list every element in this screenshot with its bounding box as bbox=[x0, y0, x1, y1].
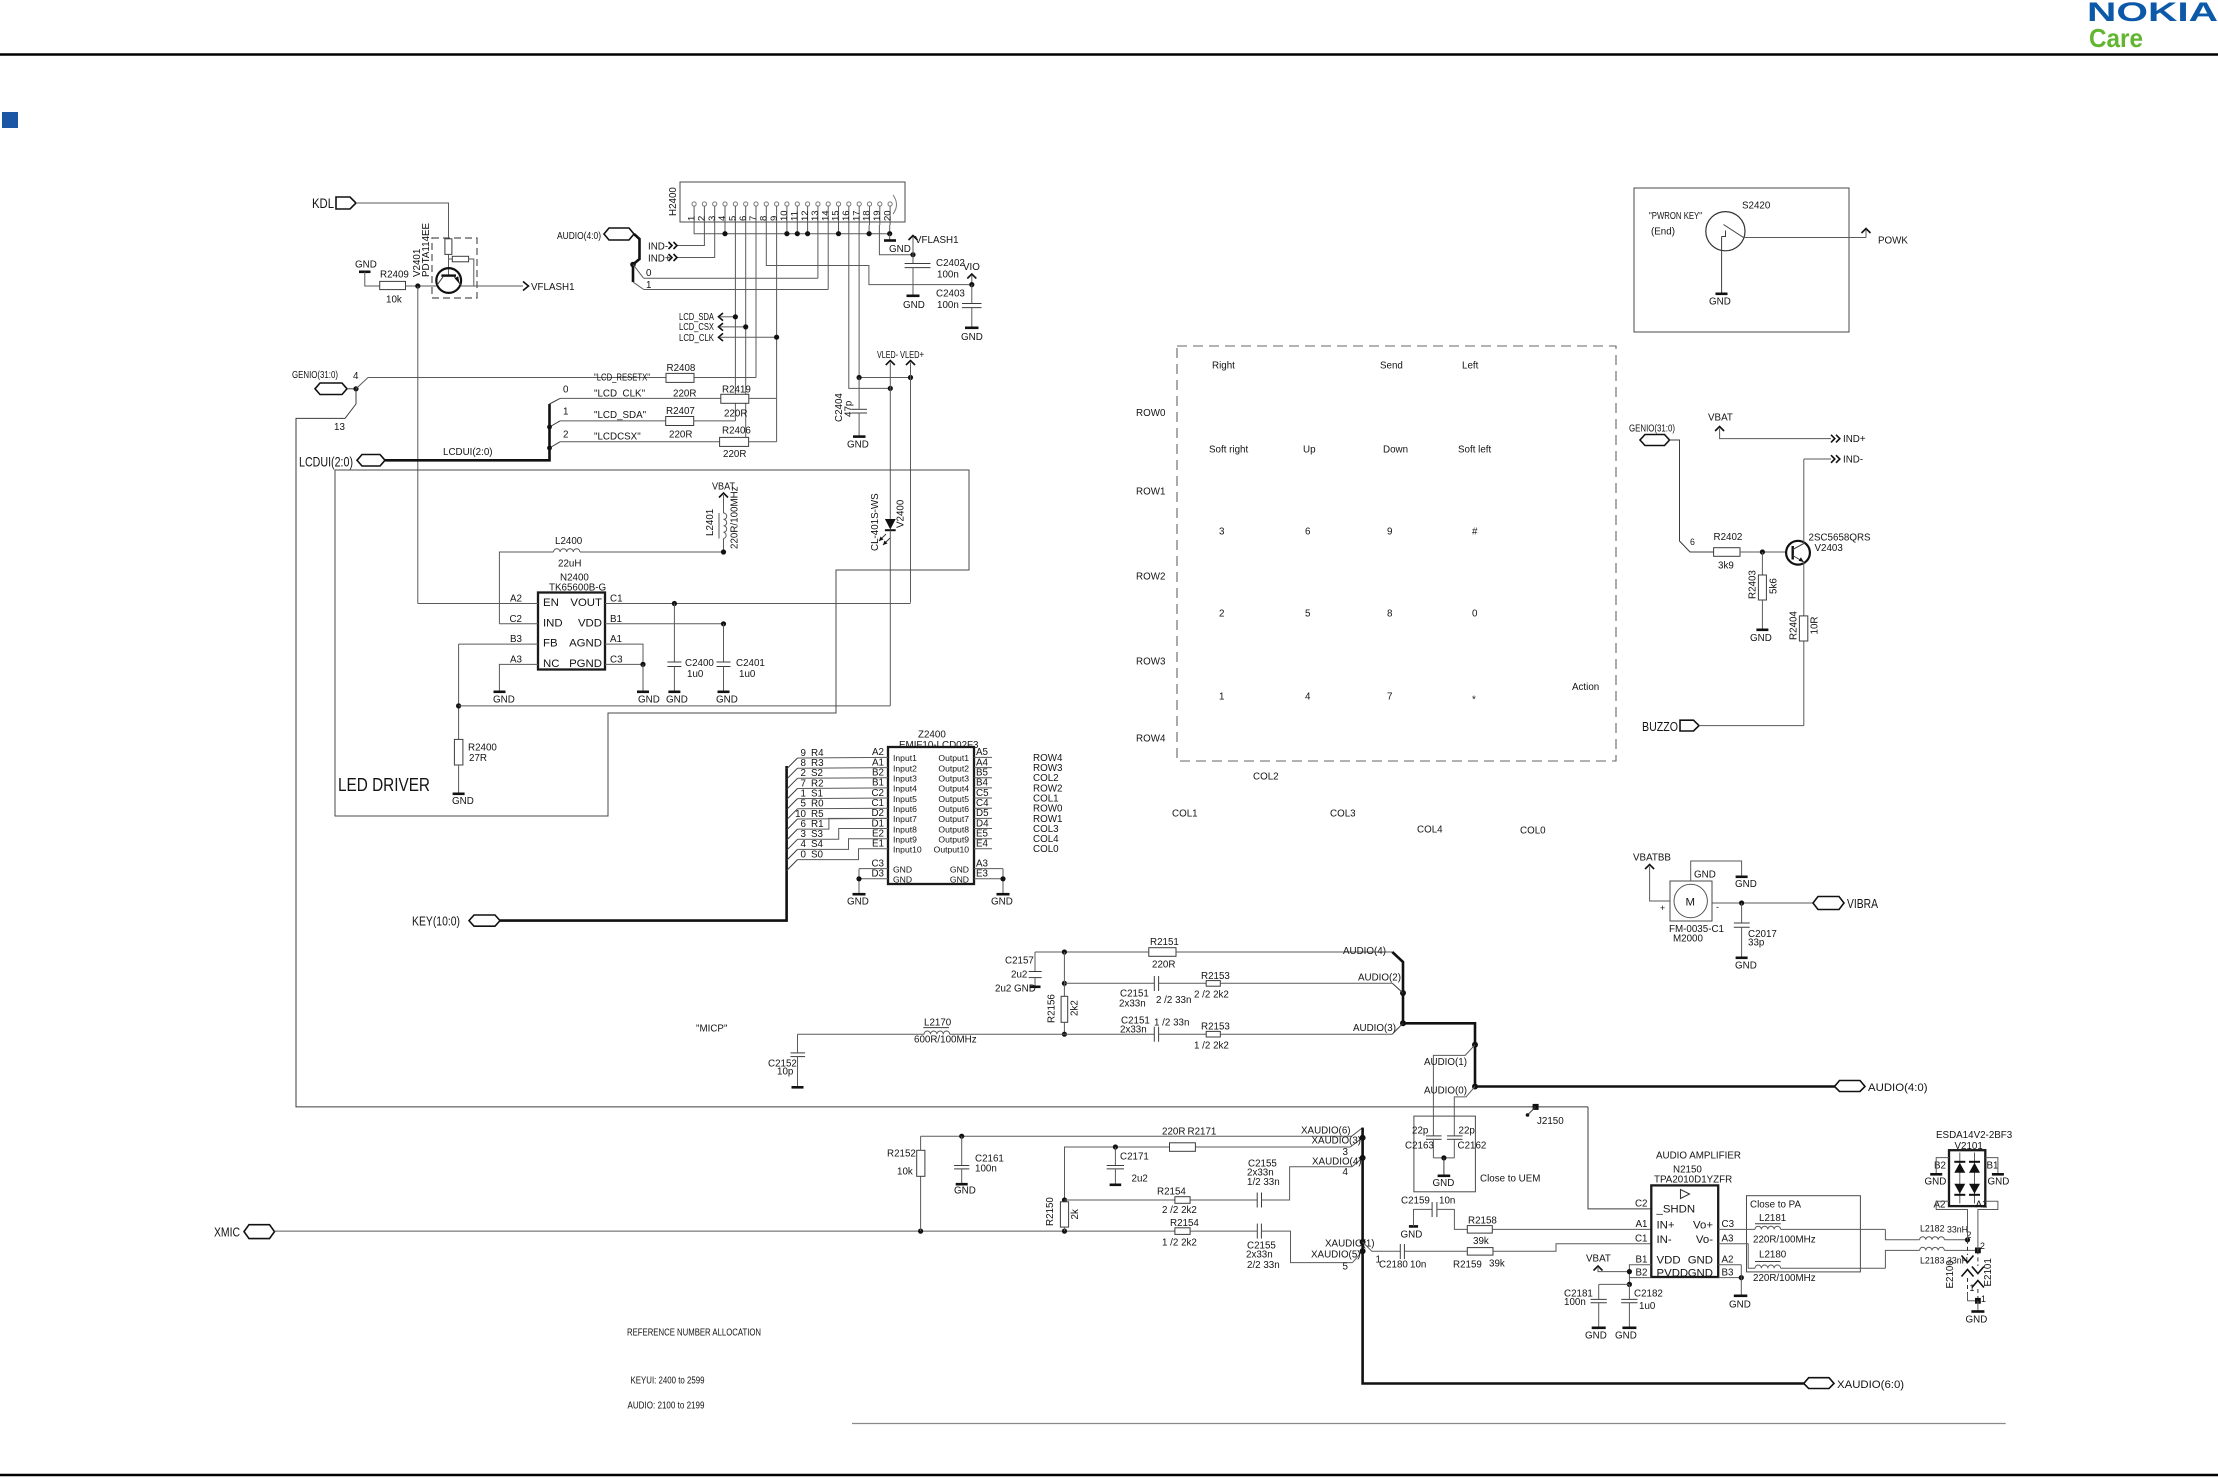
jumper J2150 bbox=[1526, 1104, 1565, 1127]
ground E2100/E2101 bbox=[1966, 1301, 1988, 1326]
thick AUDIO bus right bbox=[1392, 952, 1834, 1090]
wire S3 jog to Input8 bbox=[798, 829, 889, 840]
svg-text:R2403: R2403 bbox=[1748, 570, 1759, 599]
svg-text:2SC5658QRS: 2SC5658QRS bbox=[1809, 533, 1872, 544]
GND for R2409 bbox=[355, 260, 380, 287]
wire S4 jog to Input9 bbox=[798, 839, 889, 850]
svg-text:GND: GND bbox=[493, 695, 515, 706]
svg-text:R2406: R2406 bbox=[722, 426, 751, 437]
svg-text:13: 13 bbox=[334, 422, 345, 433]
wire GENIO bit4 to LCD_RESETX row bbox=[356, 378, 666, 389]
svg-text:AUDIO(2): AUDIO(2) bbox=[1358, 973, 1401, 984]
svg-text:2u2: 2u2 bbox=[995, 984, 1011, 995]
svg-text:"MICP": "MICP" bbox=[696, 1024, 728, 1035]
capacitor C2151 1/2 33n bbox=[1120, 1016, 1206, 1042]
svg-text:LCD_CSX: LCD_CSX bbox=[679, 322, 714, 333]
svg-text:4: 4 bbox=[353, 371, 359, 382]
svg-text:Output9: Output9 bbox=[938, 835, 969, 845]
port GENIO(31:0) left bbox=[292, 370, 359, 395]
svg-text:33p: 33p bbox=[1748, 938, 1765, 949]
svg-text:0: 0 bbox=[1472, 609, 1478, 620]
PWRON key boundary box bbox=[1634, 188, 1849, 332]
Z2400 left pin names bbox=[871, 747, 884, 849]
svg-text:220R: 220R bbox=[1162, 1127, 1185, 1138]
net label LCD_CLK row bbox=[560, 385, 721, 400]
Z2400 left GND pins bbox=[847, 858, 888, 907]
svg-text:2: 2 bbox=[1219, 609, 1224, 620]
svg-text:GND: GND bbox=[1585, 1331, 1607, 1342]
wire pin14 (AUDIO 1) bbox=[827, 225, 829, 290]
port VIBRA bbox=[1813, 897, 1879, 912]
ground C2403 bbox=[961, 328, 983, 343]
svg-text:POWK: POWK bbox=[1878, 236, 1908, 247]
svg-text:ROW0: ROW0 bbox=[1136, 408, 1166, 419]
svg-text:R2400: R2400 bbox=[468, 743, 497, 754]
svg-text:IND-: IND- bbox=[1843, 455, 1863, 466]
svg-text:VIBRA: VIBRA bbox=[1847, 897, 1879, 911]
port AUDIO(4:0) right bbox=[1835, 1081, 1928, 1095]
svg-text:C2157: C2157 bbox=[1005, 956, 1034, 967]
svg-text:C2401: C2401 bbox=[736, 658, 765, 669]
capacitor C2171 2u2 bbox=[1107, 1147, 1149, 1185]
svg-text:Output2: Output2 bbox=[938, 763, 969, 773]
svg-text:XAUDIO(3): XAUDIO(3) bbox=[1312, 1136, 1362, 1147]
svg-text:V2400: V2400 bbox=[896, 499, 907, 528]
svg-text:Input1: Input1 bbox=[893, 753, 917, 763]
svg-text:S0: S0 bbox=[811, 849, 824, 860]
resistor R2150 2k bbox=[1045, 1197, 1081, 1232]
svg-text:6: 6 bbox=[1690, 537, 1695, 547]
svg-text:100n: 100n bbox=[975, 1164, 997, 1175]
svg-text:L2401: L2401 bbox=[705, 509, 716, 536]
capacitor C2155 1/2 33n bbox=[1247, 1159, 1352, 1208]
svg-text:J2150: J2150 bbox=[1537, 1116, 1564, 1127]
svg-text:B1: B1 bbox=[610, 614, 622, 625]
svg-text:GND: GND bbox=[847, 440, 869, 451]
VBAT to IND+ bbox=[1708, 413, 1866, 446]
svg-text:AUDIO(1): AUDIO(1) bbox=[1424, 1057, 1467, 1068]
ground symbol connector bus bbox=[884, 234, 911, 255]
svg-text:R2151: R2151 bbox=[1150, 937, 1179, 948]
svg-text:REFERENCE NUMBER ALLOCATION: REFERENCE NUMBER ALLOCATION bbox=[627, 1328, 761, 1339]
wire XMIC row bbox=[275, 1230, 1175, 1232]
capacitor C2152 10p bbox=[768, 1034, 805, 1087]
port XMIC bbox=[214, 1225, 275, 1240]
svg-text:VBAT: VBAT bbox=[1708, 413, 1733, 424]
svg-text:VFLASH1: VFLASH1 bbox=[531, 282, 575, 293]
wire EN riser from R2409 node down to N2400 EN bbox=[417, 286, 419, 604]
spark gap E2100 bbox=[1945, 1240, 1978, 1301]
wire R5 to Input7 bbox=[798, 817, 889, 820]
capacitor C2403 100n bbox=[936, 285, 982, 327]
blue square bullet bbox=[2, 112, 18, 128]
svg-text:47p: 47p bbox=[844, 400, 855, 417]
IC N2150 body bbox=[1635, 1185, 1735, 1279]
wire XAUDIO(4) tap bbox=[1312, 1157, 1363, 1179]
svg-text:Close to UEM: Close to UEM bbox=[1480, 1174, 1540, 1185]
pin VDD wire to VBAT node bbox=[605, 623, 724, 625]
wire AUDIO bit0 to pin13 bbox=[633, 265, 818, 280]
svg-text:C1: C1 bbox=[1635, 1234, 1648, 1245]
port BUZZO bbox=[1642, 719, 1804, 734]
Z2400 net names ROW/COL bbox=[1033, 753, 1063, 855]
svg-text:2k2: 2k2 bbox=[1070, 1000, 1081, 1016]
FB node riser and LED return wire bbox=[456, 644, 890, 739]
svg-text:Input6: Input6 bbox=[893, 804, 917, 814]
svg-text:10k: 10k bbox=[897, 1167, 913, 1178]
VFLASH1 arrow right bbox=[523, 282, 575, 294]
pin PGND wire to GND bbox=[605, 662, 660, 706]
resistor R2171 bbox=[1170, 1143, 1351, 1152]
svg-text:C2402: C2402 bbox=[936, 258, 965, 269]
Nokia logo bbox=[2087, 0, 2218, 53]
svg-text:0: 0 bbox=[801, 849, 807, 860]
connector H2400 pins 1-20 bbox=[686, 202, 893, 225]
svg-text:A2: A2 bbox=[1722, 1255, 1734, 1266]
svg-text:AUDIO(4:0): AUDIO(4:0) bbox=[1868, 1082, 1928, 1094]
svg-text:10k: 10k bbox=[386, 295, 402, 306]
wire XAUDIO(6) row bbox=[921, 1135, 1352, 1137]
wire XAUDIO(5) tap bbox=[1311, 1250, 1363, 1273]
wire XAUDIO(1) row bbox=[1325, 1239, 1400, 1266]
svg-text:LCDUI(2:0): LCDUI(2:0) bbox=[299, 454, 353, 470]
svg-text:GND: GND bbox=[1401, 1230, 1423, 1241]
svg-text:GND: GND bbox=[716, 695, 738, 706]
svg-text:Input9: Input9 bbox=[893, 835, 917, 845]
capacitor C2182 1u0 bbox=[1615, 1284, 1663, 1341]
svg-text:1 /2 2k2: 1 /2 2k2 bbox=[1194, 1041, 1229, 1052]
svg-text:AUDIO(0): AUDIO(0) bbox=[1424, 1086, 1467, 1097]
svg-text:220R/100MHz: 220R/100MHz bbox=[1753, 1235, 1816, 1246]
wire switch to POWK bbox=[1744, 237, 1867, 239]
wire R2154 upper row bbox=[1065, 1199, 1175, 1201]
svg-text:D3: D3 bbox=[871, 869, 884, 880]
svg-text:2 /2 2k2: 2 /2 2k2 bbox=[1194, 990, 1229, 1001]
svg-text:R2171: R2171 bbox=[1188, 1127, 1217, 1138]
svg-text:XAUDIO(5): XAUDIO(5) bbox=[1311, 1250, 1361, 1261]
svg-text:C2162: C2162 bbox=[1458, 1141, 1487, 1152]
svg-text:4: 4 bbox=[1343, 1167, 1349, 1178]
LED DRIVER enclosure outline bbox=[335, 470, 969, 816]
wire R2 to Input4 bbox=[798, 787, 889, 790]
svg-text:R2408: R2408 bbox=[667, 363, 696, 374]
VLED- rail down to LED bbox=[889, 388, 891, 519]
svg-text:Send: Send bbox=[1380, 361, 1403, 372]
top rule line bbox=[0, 53, 2218, 55]
thick AUDIO bus hook bbox=[633, 234, 640, 282]
svg-text:Input7: Input7 bbox=[893, 814, 917, 824]
svg-text:GND: GND bbox=[1729, 1300, 1751, 1311]
IND+ entry arrows bbox=[648, 254, 677, 265]
svg-text:Output5: Output5 bbox=[938, 794, 969, 804]
svg-text:39k: 39k bbox=[1473, 1236, 1489, 1247]
svg-text:1: 1 bbox=[646, 280, 651, 291]
capacitor C2162 22p bbox=[1447, 1126, 1486, 1158]
svg-text:KEY(10:0): KEY(10:0) bbox=[412, 914, 460, 929]
svg-text:COL2: COL2 bbox=[1253, 772, 1279, 783]
GND bus under connector bbox=[694, 225, 890, 234]
svg-text:Output7: Output7 bbox=[938, 814, 969, 824]
capacitor C2401 1u0 bbox=[716, 624, 765, 706]
IC N2400 TK65600B-G bbox=[509, 573, 623, 670]
wire L2400 to IND pin bbox=[499, 552, 553, 624]
resistor R2156 2k2 bbox=[1047, 952, 1081, 1034]
bottom rule line bbox=[0, 1474, 2218, 1477]
svg-text:Output4: Output4 bbox=[938, 784, 969, 794]
spark gap E2101 bbox=[1972, 1250, 1994, 1304]
svg-text:(End): (End) bbox=[1651, 227, 1675, 238]
inductor L2182 33nH bbox=[1920, 1224, 1972, 1243]
inductor L2400 22uH bbox=[554, 536, 583, 570]
svg-text:R2404: R2404 bbox=[1789, 611, 1800, 640]
resistor R2154 2/2 2k2 bbox=[1157, 1187, 1257, 1217]
wire pin8 to VIO node bbox=[766, 225, 972, 285]
svg-text:"LCDCSX": "LCDCSX" bbox=[594, 432, 641, 443]
svg-text:C3: C3 bbox=[1722, 1219, 1735, 1230]
svg-text:AUDIO(4:0): AUDIO(4:0) bbox=[557, 231, 601, 242]
LED V2400 CL-401S-WS bbox=[870, 493, 907, 706]
svg-text:5: 5 bbox=[1305, 609, 1311, 620]
port AUDIO(4:0) top bbox=[557, 228, 634, 242]
svg-text:GND: GND bbox=[1433, 1178, 1455, 1189]
svg-text:GND: GND bbox=[961, 332, 983, 343]
svg-text:2/2 33n: 2/2 33n bbox=[1247, 1260, 1280, 1271]
wire R1 jog to Input7 bbox=[798, 818, 889, 829]
capacitor C2017 33p bbox=[1734, 903, 1777, 972]
wire XAUDIO(3) row bbox=[1065, 1144, 1170, 1200]
svg-text:XAUDIO(1): XAUDIO(1) bbox=[1325, 1239, 1375, 1250]
svg-text:M: M bbox=[1686, 897, 1696, 909]
svg-text:4: 4 bbox=[717, 216, 728, 221]
audio section bottom border bbox=[852, 1423, 2006, 1425]
transistor V2401 symbol bbox=[436, 268, 461, 293]
svg-text:E3: E3 bbox=[976, 869, 989, 880]
svg-text:GND: GND bbox=[889, 244, 911, 255]
svg-text:10p: 10p bbox=[777, 1067, 794, 1078]
svg-text:Input2: Input2 bbox=[893, 763, 917, 773]
connector latch pin hook bbox=[893, 195, 897, 214]
wire base bbox=[448, 254, 450, 274]
LCD_SDA tap bbox=[679, 312, 738, 323]
svg-text:220R/100MHz: 220R/100MHz bbox=[1753, 1273, 1816, 1284]
svg-text:COL4: COL4 bbox=[1417, 825, 1443, 836]
svg-text:39k: 39k bbox=[1489, 1259, 1505, 1270]
svg-text:GENIO(31:0): GENIO(31:0) bbox=[292, 370, 338, 381]
svg-text:Soft left: Soft left bbox=[1458, 445, 1491, 456]
wire AUDIO bit1 to pin14 bbox=[633, 280, 828, 291]
svg-text:TPA2010D1YZFR: TPA2010D1YZFR bbox=[1654, 1175, 1732, 1186]
svg-text:PDTA114EE: PDTA114EE bbox=[421, 222, 432, 277]
svg-text:VOUT: VOUT bbox=[570, 597, 602, 609]
svg-text:B3: B3 bbox=[510, 634, 523, 645]
Vo- wire and inductor L2180 bbox=[1718, 1244, 1885, 1284]
pin NC wire to GND bbox=[493, 664, 538, 705]
svg-text:33nH: 33nH bbox=[1947, 1225, 1968, 1235]
svg-text:100n: 100n bbox=[1564, 1297, 1586, 1308]
svg-text:IND-: IND- bbox=[648, 242, 668, 253]
svg-text:ROW2: ROW2 bbox=[1136, 572, 1165, 583]
internal base resistor R1 of V2401 bbox=[445, 239, 452, 255]
internal resistor R2 of V2401 bbox=[449, 256, 474, 285]
svg-text:2x33n: 2x33n bbox=[1120, 1025, 1147, 1036]
dashed body box V2401 bbox=[432, 238, 477, 298]
svg-text:AUDIO(4): AUDIO(4) bbox=[1343, 946, 1386, 957]
svg-text:GND: GND bbox=[1966, 1315, 1988, 1326]
wire R2409 to V2401 emitter / VFLASH1 bbox=[406, 285, 437, 287]
svg-text:NC: NC bbox=[543, 658, 559, 670]
svg-text:C2182: C2182 bbox=[1634, 1289, 1663, 1300]
Vo+ wire and inductor L2181 bbox=[1718, 1213, 1885, 1246]
svg-text:GND: GND bbox=[1988, 1177, 2010, 1188]
svg-text:C2163: C2163 bbox=[1405, 1141, 1434, 1152]
pin EN wire bbox=[418, 603, 538, 605]
svg-text:GND: GND bbox=[847, 897, 869, 908]
svg-text:GND: GND bbox=[1750, 633, 1772, 644]
svg-text:3k9: 3k9 bbox=[1718, 561, 1734, 572]
svg-text:"LCD_RESETX": "LCD_RESETX" bbox=[594, 373, 650, 384]
svg-text:3: 3 bbox=[1219, 527, 1225, 538]
thick LCDUI bus bbox=[385, 404, 550, 460]
svg-text:100n: 100n bbox=[937, 270, 959, 281]
svg-text:R2419: R2419 bbox=[722, 385, 751, 396]
VLED- arrow bbox=[877, 350, 898, 388]
svg-text:Input3: Input3 bbox=[893, 774, 917, 784]
svg-text:L2182: L2182 bbox=[1920, 1224, 1945, 1234]
svg-text:V2403: V2403 bbox=[1815, 543, 1844, 554]
svg-text:C2400: C2400 bbox=[685, 658, 714, 669]
svg-text:L2170: L2170 bbox=[924, 1018, 952, 1029]
VBAT arrow bbox=[712, 482, 735, 514]
svg-text:GND: GND bbox=[991, 897, 1013, 908]
svg-text:L2400: L2400 bbox=[555, 536, 583, 547]
resistor R2406 220R bbox=[720, 398, 777, 460]
svg-text:GND: GND bbox=[355, 260, 377, 271]
svg-text:22p: 22p bbox=[1459, 1126, 1476, 1137]
svg-text:R2407: R2407 bbox=[666, 406, 695, 417]
capacitor C2157 2u2 bbox=[995, 952, 1042, 995]
resistor R2419 220R bbox=[721, 385, 777, 420]
svg-text:GND: GND bbox=[1735, 879, 1757, 890]
svg-text:Input4: Input4 bbox=[893, 784, 917, 794]
UEM caps common ground bbox=[1433, 1155, 1455, 1189]
svg-text:220R: 220R bbox=[723, 449, 746, 460]
svg-text:Z2400: Z2400 bbox=[918, 730, 946, 741]
wire pin17 to VLED+ bbox=[859, 225, 910, 378]
port GENIO(31:0) right bbox=[1629, 424, 1675, 446]
wire XAUDIO(6) tap bbox=[1301, 1126, 1363, 1137]
svg-text:4: 4 bbox=[1305, 692, 1311, 703]
labels bbox=[1654, 1151, 1741, 1186]
svg-text:1: 1 bbox=[1981, 1294, 1986, 1304]
capacitor C2155 2/2 33n bbox=[1246, 1224, 1353, 1271]
collector wire to IND- bbox=[1804, 455, 1863, 544]
svg-text:XAUDIO(4): XAUDIO(4) bbox=[1312, 1157, 1362, 1168]
svg-text:GND: GND bbox=[666, 695, 688, 706]
svg-text:B1: B1 bbox=[1636, 1255, 1648, 1266]
VBATBB arrow bbox=[1633, 853, 1671, 914]
wire XAUDIO(3) tap bbox=[1312, 1136, 1363, 1159]
svg-text:A1: A1 bbox=[1636, 1219, 1648, 1230]
svg-text:EMIF10-LCD02F3: EMIF10-LCD02F3 bbox=[899, 740, 979, 751]
svg-text:GND: GND bbox=[893, 864, 912, 874]
pin AGND wire bbox=[605, 644, 643, 664]
labels ESDA14V2-2BF3 V2101 bbox=[1936, 1130, 2013, 1152]
svg-text:220R: 220R bbox=[673, 389, 696, 400]
wire AUDIO(0) to UEM cap bbox=[1424, 1086, 1475, 1136]
svg-text:GND: GND bbox=[1694, 870, 1716, 881]
svg-text:A2: A2 bbox=[510, 594, 522, 605]
svg-text:1u0: 1u0 bbox=[687, 669, 704, 680]
svg-text:Output3: Output3 bbox=[938, 774, 969, 784]
svg-text:22p: 22p bbox=[1412, 1126, 1429, 1137]
svg-text:R2154: R2154 bbox=[1157, 1187, 1186, 1198]
svg-text:L2181: L2181 bbox=[1759, 1213, 1786, 1224]
svg-text:Close to PA: Close to PA bbox=[1750, 1200, 1801, 1211]
svg-text:B2: B2 bbox=[1636, 1267, 1648, 1278]
VIO power arrow bbox=[963, 262, 980, 287]
capacitor C2151 2/2 33n bbox=[1119, 976, 1206, 1010]
Z2400 output stubs and pin names bbox=[974, 747, 992, 849]
svg-text:AUDIO AMPLIFIER: AUDIO AMPLIFIER bbox=[1656, 1151, 1741, 1162]
svg-text:1u0: 1u0 bbox=[739, 669, 756, 680]
net label LCDCSX row bbox=[560, 430, 720, 443]
resistor R2152 10k bbox=[887, 1136, 925, 1231]
svg-text:100n: 100n bbox=[937, 300, 959, 311]
svg-text:KEYUI: 2400 to 2599: KEYUI: 2400 to 2599 bbox=[631, 1376, 705, 1387]
svg-text:2 /2 2k2: 2 /2 2k2 bbox=[1162, 1205, 1197, 1216]
KEY bus taps and labels bbox=[787, 748, 824, 871]
svg-text:R2150: R2150 bbox=[1045, 1197, 1056, 1226]
svg-text:2 /2 33n: 2 /2 33n bbox=[1156, 995, 1191, 1006]
svg-text:VBAT: VBAT bbox=[1586, 1254, 1611, 1265]
svg-text:LCD_CLK: LCD_CLK bbox=[679, 333, 714, 344]
net label LCD_SDA row bbox=[560, 407, 666, 422]
resistor R2153 1/2 2k2 bbox=[1194, 1022, 1403, 1052]
svg-text:Input5: Input5 bbox=[893, 794, 917, 804]
connector H2400 body bbox=[668, 182, 905, 222]
motor M2000 FM-0035-C1 bbox=[1669, 881, 1724, 945]
svg-text:GENIO(31:0): GENIO(31:0) bbox=[1629, 424, 1675, 435]
svg-text:Vo-: Vo- bbox=[1696, 1234, 1713, 1246]
wire R4 to Input1 bbox=[798, 756, 889, 759]
ground C2402 bbox=[903, 296, 925, 311]
svg-text:220R: 220R bbox=[724, 409, 747, 420]
svg-text:"PWRON KEY": "PWRON KEY" bbox=[1649, 211, 1702, 222]
wire pin3 to IND+ bbox=[676, 225, 715, 258]
svg-text:1/2 33n: 1/2 33n bbox=[1247, 1177, 1280, 1188]
svg-text:Input10: Input10 bbox=[893, 845, 922, 855]
svg-text:#: # bbox=[1472, 527, 1478, 538]
IND- entry arrows bbox=[648, 242, 677, 253]
svg-text:27R: 27R bbox=[469, 753, 487, 764]
svg-text:VLED-: VLED- bbox=[877, 350, 898, 361]
svg-text:Output6: Output6 bbox=[938, 804, 969, 814]
node junction at R2409/EN bbox=[415, 283, 420, 288]
svg-text:IND+: IND+ bbox=[1843, 434, 1866, 445]
reference number allocation text bbox=[627, 1328, 761, 1412]
LCD_CLK tap bbox=[679, 333, 779, 344]
GND bus pin stubs bbox=[722, 225, 892, 236]
svg-text:1u0: 1u0 bbox=[1639, 1301, 1656, 1312]
svg-text:ESDA14V2-2BF3: ESDA14V2-2BF3 bbox=[1936, 1130, 2013, 1141]
svg-text:20: 20 bbox=[882, 210, 893, 221]
svg-text:C3: C3 bbox=[610, 654, 623, 665]
capacitor C2404 47p bbox=[834, 378, 867, 436]
svg-text:H2400: H2400 bbox=[668, 187, 679, 216]
switch S2420 bbox=[1706, 212, 1745, 293]
svg-text:C2180: C2180 bbox=[1379, 1260, 1408, 1271]
svg-text:R2409: R2409 bbox=[380, 270, 409, 281]
